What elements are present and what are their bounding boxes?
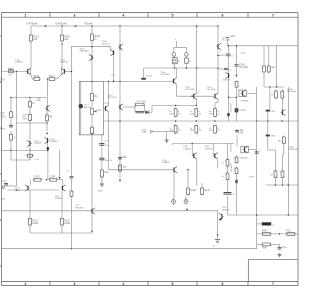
wire zobel link bbox=[271, 243, 280, 245]
wire x30-jog1 bbox=[29, 146, 31, 160]
wire tail-T106 bbox=[47, 98, 49, 106]
capacitor C110 decoupling bbox=[235, 63, 249, 69]
transistor T117b blob bbox=[235, 108, 239, 112]
wire link y105.5 bbox=[152, 105, 196, 107]
wire x227 col mid bbox=[227, 166, 229, 173]
zener D101 MA 10V bbox=[79, 81, 92, 134]
wire T105 down bbox=[29, 121, 31, 142]
wire Q1 e jog bbox=[31, 75, 33, 79]
wire x59 drop bbox=[59, 150, 61, 177]
wire y185 rail bbox=[266, 184, 298, 186]
resistor R113 bbox=[9, 133, 13, 142]
wire y68 link bbox=[144, 67, 218, 69]
wire T105 base stub bbox=[29, 98, 31, 102]
node y81-x108 bbox=[108, 81, 110, 83]
wire x47 bottom bbox=[47, 143, 49, 151]
wire flag2 link bbox=[153, 131, 176, 133]
wire L1 feed bbox=[257, 223, 262, 225]
transistor T106 bbox=[45, 105, 50, 111]
connector input jack 2 bbox=[2, 186, 4, 188]
wire output node rail bbox=[103, 120, 298, 122]
wire gnd stub mid bbox=[166, 132, 168, 140]
wire R162 jog bbox=[283, 154, 284, 156]
capacitor C111 dark bbox=[266, 110, 270, 112]
wire feedback node bbox=[71, 47, 73, 177]
wire T205 emitter down bbox=[217, 159, 219, 168]
svg-text:L10R: L10R bbox=[249, 176, 254, 178]
node out-x256 bbox=[256, 120, 258, 122]
resistor R127 parallel bbox=[135, 101, 147, 113]
resistor R-nfb bbox=[70, 178, 73, 196]
wire x269 col3 bbox=[267, 121, 269, 135]
svg-text:3: 3 bbox=[74, 282, 76, 286]
resistor R121 in box bbox=[90, 126, 94, 135]
svg-text:4: 4 bbox=[123, 282, 125, 286]
wire y150 long bbox=[11, 149, 48, 151]
wire C110-R152 bbox=[236, 68, 238, 75]
resistor R114b bbox=[28, 100, 36, 109]
svg-text:D: D bbox=[0, 172, 2, 176]
wire bias drop bbox=[185, 196, 187, 200]
svg-text:R140: R140 bbox=[190, 189, 196, 192]
resistor R118h bbox=[26, 154, 34, 157]
resistor R152 bbox=[234, 80, 238, 89]
wire row C bbox=[173, 143, 234, 145]
wire T113 down bbox=[173, 172, 175, 198]
input series filter bbox=[9, 70, 14, 73]
node row y179 bbox=[46, 179, 48, 181]
wire input line bbox=[2, 70, 27, 72]
transistor T103 bbox=[89, 54, 94, 60]
wire y87 link bbox=[264, 86, 284, 88]
svg-text:2SD669: 2SD669 bbox=[240, 158, 249, 160]
trimmer VR101 bbox=[91, 101, 97, 115]
arrow bias bbox=[186, 209, 188, 211]
capacitor C120 bbox=[4, 182, 8, 186]
resistor R132 bbox=[209, 108, 221, 118]
node box bottom bbox=[91, 133, 93, 135]
resistor R161 emitter bbox=[273, 170, 277, 180]
svg-text:3: 3 bbox=[74, 14, 76, 18]
net flag left 2 bbox=[151, 130, 153, 132]
wire x11 low2 bbox=[10, 142, 12, 151]
svg-text:4R7: 4R7 bbox=[271, 67, 276, 70]
svg-text:C10? 100p: C10? 100p bbox=[136, 101, 147, 103]
svg-text:0.1u: 0.1u bbox=[282, 246, 287, 249]
resistor R126 box bbox=[185, 56, 193, 68]
wire R150 bottom bbox=[263, 74, 265, 87]
svg-text:2SC3423: 2SC3423 bbox=[108, 97, 118, 99]
wire feedback node low bbox=[71, 196, 73, 248]
frame column ticks bbox=[50, 13, 248, 286]
arrow x120 bottom bbox=[119, 180, 121, 182]
wire Q2 base feedback bbox=[66, 70, 72, 72]
wire x227 col bot bbox=[227, 196, 229, 215]
resistor R134 bbox=[169, 124, 181, 134]
transistor T107 VAS bbox=[104, 105, 109, 111]
resistor R172 bbox=[28, 217, 39, 227]
node y97-228 bbox=[228, 96, 230, 98]
resistor R106 emitter bbox=[33, 76, 42, 81]
capacitor C zobel bbox=[278, 246, 288, 250]
wire trimmer-R121 bbox=[91, 114, 93, 127]
resistor R142 bbox=[225, 158, 229, 168]
resistor R173 bbox=[60, 217, 71, 227]
ground mid flag bbox=[165, 139, 169, 143]
wire riser x276 bbox=[276, 46, 278, 87]
resistor R171 bbox=[48, 177, 58, 182]
node y169-x188 bbox=[187, 169, 189, 171]
transistor T108 cascode bbox=[118, 44, 123, 50]
node y185-x275 bbox=[275, 184, 277, 186]
transistor T117 bbox=[281, 109, 286, 115]
flag +V terminal bbox=[226, 38, 230, 46]
svg-text:R107: R107 bbox=[49, 76, 55, 78]
svg-text:30p: 30p bbox=[122, 166, 127, 169]
wire +V rail left section bbox=[31, 25, 218, 27]
wire R159 down bbox=[236, 175, 238, 215]
svg-text:C110: C110 bbox=[241, 53, 247, 55]
node out-x120 bbox=[119, 120, 121, 122]
svg-text:R0 0R22: R0 0R22 bbox=[231, 143, 233, 152]
node rail-x92 bbox=[91, 25, 93, 27]
resistor R143 bbox=[225, 172, 229, 182]
node y81-x113 bbox=[113, 81, 115, 83]
diode D11 circle bbox=[185, 47, 189, 56]
wire rowC left drop bbox=[172, 144, 174, 146]
wire VAS base bbox=[102, 108, 105, 110]
wire C2-C104 bbox=[101, 145, 103, 158]
resistor R162 emitter bbox=[280, 170, 284, 180]
svg-text:T107: T107 bbox=[104, 103, 110, 105]
resistor R115 bbox=[28, 113, 32, 122]
wire VAS collector up bbox=[108, 81, 110, 105]
svg-text:R10: R10 bbox=[286, 231, 291, 233]
node y185-x288 bbox=[288, 184, 290, 186]
wire x30 down bbox=[29, 190, 31, 217]
svg-text:7: 7 bbox=[272, 14, 274, 18]
capacitor C107b bbox=[218, 68, 232, 71]
capacitor C106 stub bbox=[218, 54, 226, 57]
node rail-x62 bbox=[61, 25, 63, 27]
frame column numbers bbox=[25, 14, 275, 287]
node y81-x120 bbox=[119, 81, 121, 83]
capacitor C-nfb bbox=[70, 177, 74, 179]
svg-text:GND: GND bbox=[0, 80, 5, 82]
transistor T120 bbox=[25, 185, 30, 191]
transistor T104 JFET bbox=[110, 50, 115, 56]
node -V x256 bbox=[256, 214, 258, 216]
wire R170 down bbox=[29, 180, 31, 185]
resistor R130 bbox=[169, 108, 181, 118]
node y87-x268 bbox=[269, 86, 271, 88]
wire T202 collector up bbox=[196, 26, 198, 93]
wire VAS emitter down bbox=[108, 112, 110, 170]
wire R105 top bbox=[91, 26, 93, 33]
node LTP tail bbox=[47, 78, 49, 80]
blob emitter junction lower bbox=[235, 180, 237, 183]
wire R173-y233 bbox=[61, 227, 63, 234]
transistor T203 bbox=[213, 93, 218, 99]
current arrow 2 bbox=[75, 25, 77, 27]
svg-text:2SB1648: 2SB1648 bbox=[289, 149, 299, 151]
transistor T116 driver upper bbox=[239, 90, 246, 97]
wire T104 feed drop bbox=[110, 47, 112, 51]
node out-x282 bbox=[281, 120, 283, 122]
transistor T201 bbox=[172, 78, 177, 84]
wire driver low to column bbox=[248, 149, 257, 151]
svg-text:500R: 500R bbox=[97, 110, 102, 112]
wire shunt to C120 bbox=[6, 185, 17, 187]
wire vas2 emitter right bbox=[123, 106, 135, 108]
resistor R125 box bbox=[172, 56, 181, 68]
node out-x175 bbox=[175, 120, 177, 122]
node y68-x196 bbox=[196, 67, 198, 69]
wire box col to T122 bbox=[91, 134, 93, 209]
svg-text:2SC1845: 2SC1845 bbox=[207, 89, 217, 91]
node rail-x120 bbox=[119, 25, 121, 27]
wire LTP left drop bbox=[30, 41, 32, 68]
node out-x215 bbox=[214, 120, 216, 122]
svg-text:2SD669: 2SD669 bbox=[205, 148, 213, 150]
capacitor C105 bbox=[224, 193, 236, 196]
transistor T122 bbox=[90, 208, 95, 214]
wire branch y46.7 bbox=[71, 46, 111, 48]
node y68-x174 bbox=[174, 67, 176, 69]
node feedback top bbox=[71, 71, 73, 73]
svg-text:LOAD: LOAD bbox=[142, 131, 148, 134]
wire x11 top bbox=[10, 98, 12, 112]
resistor R141 bbox=[200, 187, 211, 197]
svg-text:4.3mA: 4.3mA bbox=[85, 22, 93, 26]
arrow x92 bbox=[91, 231, 93, 233]
resistor R170 bbox=[33, 177, 43, 182]
resistor R102 current source bbox=[60, 34, 71, 43]
wire x92 down bbox=[91, 213, 93, 230]
svg-text:C107: C107 bbox=[1, 181, 7, 183]
svg-text:1E1O: 1E1O bbox=[271, 135, 277, 137]
wire y169 mid bbox=[109, 169, 173, 171]
node x62-y44 bbox=[61, 43, 63, 45]
wire base link T202 T203 bbox=[177, 95, 214, 97]
wire driver to out column bbox=[247, 92, 257, 94]
svg-text:0.475mA: 0.475mA bbox=[56, 22, 67, 26]
capacitor C-out mid bbox=[255, 150, 262, 153]
title block lines bbox=[248, 260, 298, 282]
wire R152-T116 bbox=[236, 89, 238, 98]
wire T104 emitter bbox=[112, 55, 114, 81]
svg-text:2SC1875: 2SC1875 bbox=[160, 74, 170, 76]
wire x62 down bbox=[61, 190, 63, 217]
wire jog to R161 bbox=[268, 149, 276, 151]
capacitor C113 dark bbox=[266, 135, 270, 137]
wire T204 base up bbox=[191, 144, 193, 156]
wire y160 join bbox=[11, 159, 30, 161]
wire row right stub bbox=[58, 179, 63, 181]
svg-text:GND: GND bbox=[98, 191, 103, 193]
svg-text:2SA970: 2SA970 bbox=[60, 61, 69, 64]
node C110 rail bbox=[236, 45, 238, 47]
resistor R140 bbox=[186, 187, 197, 197]
inductor L1 bbox=[262, 222, 271, 225]
wire stub down bbox=[176, 41, 178, 47]
node x47-y123 bbox=[46, 122, 48, 124]
node mirror-left bbox=[29, 97, 31, 99]
resistor R zobel bbox=[261, 243, 272, 250]
resistor R154 emitter bbox=[280, 90, 284, 100]
wire R102 top bbox=[61, 26, 63, 34]
svg-text:100R: 100R bbox=[64, 222, 70, 225]
svg-text:2SB646: 2SB646 bbox=[50, 141, 58, 143]
svg-text:7: 7 bbox=[272, 282, 274, 286]
wire VAS collector column bbox=[119, 26, 121, 179]
arrow x59 bbox=[58, 177, 60, 179]
wire R151 top bbox=[268, 46, 270, 65]
wire R140 up bbox=[187, 170, 189, 187]
svg-text:1k: 1k bbox=[14, 137, 16, 139]
wire x48 drop bbox=[47, 152, 49, 179]
transistor T114 bbox=[219, 213, 224, 219]
resistor R124 bbox=[100, 169, 109, 179]
wire base link y190 bbox=[8, 189, 59, 191]
wire T204 emitter down bbox=[196, 159, 198, 186]
svg-text:TAL 25V: TAL 25V bbox=[239, 66, 248, 69]
svg-text:C10R: C10R bbox=[34, 177, 40, 179]
wire x288 col bbox=[287, 87, 289, 215]
svg-text:R106: R106 bbox=[34, 76, 40, 78]
node y68-x218 bbox=[217, 67, 219, 69]
wire x11 low bbox=[10, 131, 12, 134]
resistor R151 base stopper bbox=[267, 65, 276, 74]
resistor R153 emitter bbox=[274, 90, 278, 100]
wire out column drop bbox=[217, 211, 219, 236]
resistor R101 current source bbox=[29, 34, 40, 43]
wire T201 emitter down bbox=[176, 84, 178, 96]
wire R171 down bbox=[62, 180, 64, 185]
svg-text:R0 0R22: R0 0R22 bbox=[231, 163, 233, 172]
svg-text:R047: R047 bbox=[262, 248, 268, 250]
node x218-y55 bbox=[217, 55, 219, 57]
wire +V rail right section bbox=[228, 45, 299, 47]
node y97-236 bbox=[236, 96, 238, 98]
svg-text:68u: 68u bbox=[122, 156, 127, 159]
wire box col top bbox=[91, 81, 93, 92]
node mirror-x11 bbox=[10, 97, 12, 99]
transistor T105b bbox=[27, 140, 32, 146]
svg-text:2: 2 bbox=[25, 14, 27, 18]
wire Q2 e jog bbox=[56, 75, 61, 79]
node feedback bottom bbox=[71, 248, 73, 250]
wire input shunt column bbox=[16, 71, 18, 186]
capacitor C109 parallel bbox=[136, 105, 145, 113]
wire T202 emitter bbox=[196, 99, 198, 105]
svg-text:+35V: +35V bbox=[230, 36, 236, 38]
svg-text:HA/GND: HA/GND bbox=[76, 206, 85, 209]
wire x236 down bbox=[236, 97, 238, 121]
wire zobel stub bbox=[257, 243, 262, 245]
resistor R107 emitter bbox=[48, 76, 57, 81]
node out-x196 bbox=[196, 120, 198, 122]
wire Q1 collector bbox=[30, 68, 32, 74]
wire T103 bottom bbox=[91, 60, 93, 81]
svg-text:2SD669: 2SD669 bbox=[222, 209, 231, 211]
resistor R150 base stopper bbox=[262, 65, 266, 74]
CRD diode blob bbox=[141, 78, 146, 80]
wire R161 top bbox=[275, 150, 277, 171]
wire y102 jog bbox=[215, 102, 218, 104]
node rail-x196 bbox=[196, 25, 198, 27]
wire x227 col mid2 bbox=[227, 180, 229, 193]
svg-text:C2??: C2?? bbox=[104, 141, 110, 143]
transistor T119 rail bbox=[216, 43, 221, 49]
diode D10 circle bbox=[172, 47, 176, 56]
svg-text:0.475mA: 0.475mA bbox=[27, 22, 38, 26]
capacitor C2 dark bbox=[99, 144, 104, 146]
transistor T113 bbox=[172, 167, 177, 173]
wire C104-R124 bbox=[101, 160, 103, 170]
svg-text:2SB646: 2SB646 bbox=[34, 143, 42, 145]
terminal output post bbox=[215, 235, 220, 243]
transistor T115 pre bbox=[226, 72, 231, 78]
wire y233 link bbox=[30, 232, 92, 234]
ground x102 bbox=[100, 183, 104, 187]
wire x227 col top bbox=[227, 144, 229, 160]
node -V x288 bbox=[288, 214, 290, 216]
resistor R136 bbox=[209, 124, 221, 134]
current arrow 1 bbox=[45, 25, 47, 27]
node y68-x186 bbox=[186, 67, 188, 69]
capacitor C103 comp bbox=[118, 156, 127, 160]
transistor T118 driver lower bbox=[241, 146, 248, 153]
wire R141 up bbox=[201, 183, 203, 187]
node rail-x218 bbox=[217, 25, 219, 27]
node base link left bbox=[16, 189, 18, 191]
svg-text:1N4148: 1N4148 bbox=[223, 80, 231, 82]
wire x218 rail drop bbox=[217, 26, 219, 44]
transistor T205 driver bbox=[213, 153, 218, 159]
wire T106-R116 bbox=[46, 111, 48, 115]
wire x11 mid bbox=[10, 119, 12, 125]
wire x269 col4 bbox=[267, 136, 269, 150]
arrow tail source bbox=[46, 133, 48, 135]
wire y97 link bbox=[229, 96, 237, 98]
frame row letters bbox=[0, 34, 2, 268]
wire C112-T118 bbox=[236, 135, 238, 146]
svg-text:25V: 25V bbox=[239, 132, 244, 135]
svg-text:1/4W: 1/4W bbox=[1, 117, 6, 119]
ground zobel bbox=[278, 253, 282, 257]
svg-text:1E1O: 1E1O bbox=[271, 111, 277, 113]
wire mirror out left bbox=[17, 122, 48, 124]
resistor R105 VAS feed bbox=[90, 33, 101, 43]
node box feed top bbox=[91, 81, 93, 83]
resistor R135 bbox=[190, 124, 202, 134]
wire T115 col bbox=[228, 46, 230, 121]
svg-text:GND: GND bbox=[1, 199, 6, 201]
svg-text:2SC1845: 2SC1845 bbox=[222, 40, 232, 42]
node input tap bbox=[16, 71, 18, 73]
svg-text:5: 5 bbox=[172, 282, 174, 286]
wire -V right rail bbox=[228, 214, 299, 216]
T106b emitter arrow bbox=[46, 147, 49, 152]
resistor R158 bbox=[234, 156, 238, 165]
svg-text:R100: R100 bbox=[8, 68, 14, 70]
node out post bbox=[217, 234, 219, 236]
wire mirror row bbox=[11, 97, 48, 99]
wire R172-y233 bbox=[29, 227, 31, 234]
wire T103 top bbox=[91, 47, 93, 56]
wire x269 col2 bbox=[267, 112, 269, 122]
